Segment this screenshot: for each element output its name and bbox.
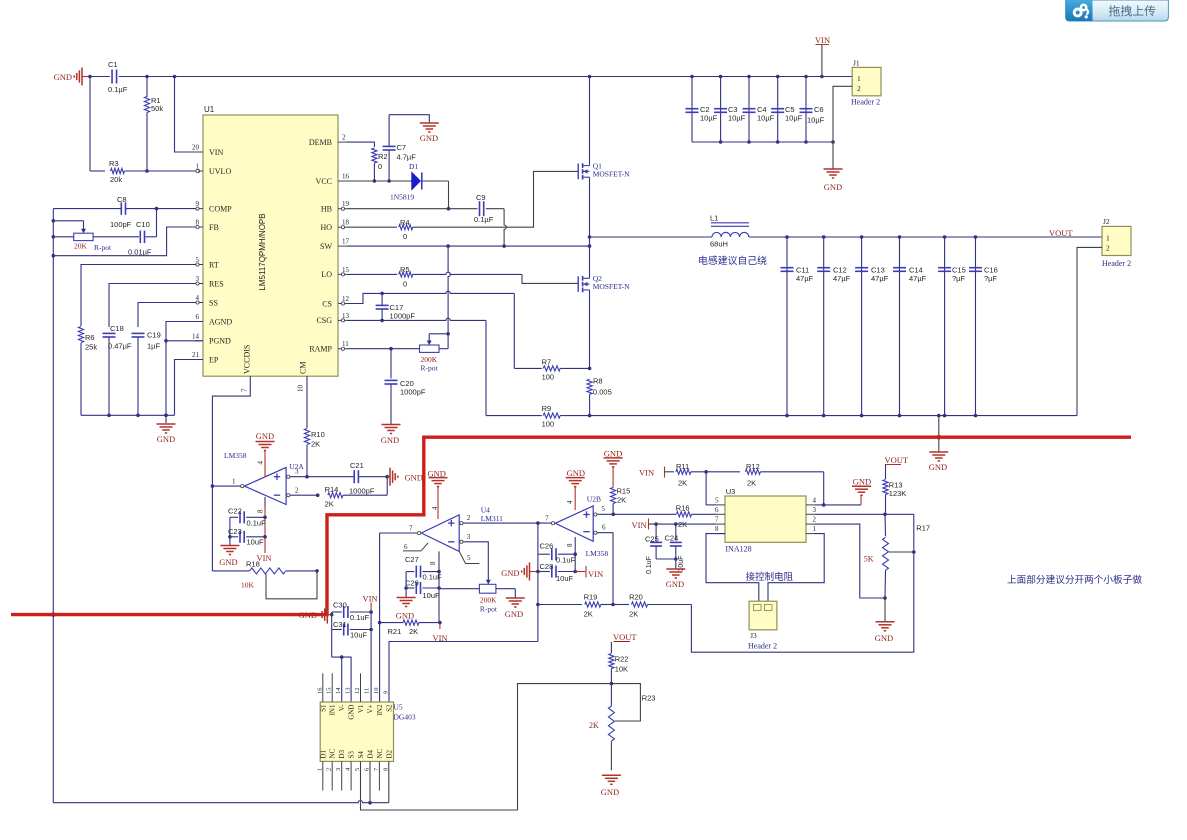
wire left rail to bottom bbox=[52, 615, 54, 803]
svg-text:SW: SW bbox=[320, 242, 332, 251]
svg-text:GND: GND bbox=[420, 133, 438, 143]
wire VIN to U5 V+ pin bbox=[370, 612, 372, 702]
svg-text:HB: HB bbox=[321, 205, 332, 214]
svg-text:R19: R19 bbox=[584, 593, 598, 602]
svg-text:VIN: VIN bbox=[639, 468, 654, 478]
wire V- and GND pins of U5 bbox=[332, 657, 351, 702]
U5 bottom pin stubs bbox=[322, 761, 324, 790]
capacitor C5 bbox=[777, 77, 779, 143]
svg-text:15: 15 bbox=[326, 688, 333, 695]
svg-text:CM: CM bbox=[299, 362, 308, 374]
svg-text:RT: RT bbox=[209, 260, 219, 269]
svg-text:123K: 123K bbox=[889, 489, 907, 498]
svg-text:L1: L1 bbox=[710, 214, 718, 223]
svg-text:R23: R23 bbox=[642, 694, 656, 703]
svg-text:J1: J1 bbox=[853, 59, 860, 68]
svg-text:0.1uF: 0.1uF bbox=[423, 573, 443, 582]
svg-text:0.1uF: 0.1uF bbox=[556, 556, 576, 565]
potentiometer 20K R-pot bbox=[53, 220, 83, 222]
svg-text:10uF: 10uF bbox=[423, 591, 441, 600]
svg-text:GND: GND bbox=[54, 72, 72, 82]
svg-text:10µF: 10µF bbox=[785, 114, 803, 123]
wire analog ground rail bbox=[81, 414, 175, 416]
svg-text:20: 20 bbox=[192, 144, 200, 152]
svg-text:R14: R14 bbox=[325, 485, 339, 494]
svg-text:LM5117QPMH/NOPB: LM5117QPMH/NOPB bbox=[258, 213, 267, 290]
wire RAMP bbox=[347, 348, 420, 350]
svg-text:Header 2: Header 2 bbox=[748, 642, 777, 651]
capacitor C3 bbox=[720, 77, 722, 143]
svg-text:10uF: 10uF bbox=[350, 631, 368, 640]
svg-text:GND: GND bbox=[348, 705, 356, 720]
svg-text:200K: 200K bbox=[480, 596, 497, 605]
resistor R4 bbox=[399, 225, 413, 230]
svg-text:VCC: VCC bbox=[316, 177, 332, 186]
svg-text:8: 8 bbox=[566, 543, 574, 547]
svg-text:2K: 2K bbox=[409, 627, 418, 636]
wire U2B pin5 R16 line to U3 pin6 bbox=[597, 513, 676, 515]
svg-text:VIN: VIN bbox=[815, 35, 830, 45]
svg-text:CS: CS bbox=[322, 299, 332, 308]
capacitor C28 bbox=[538, 571, 550, 573]
svg-text:3: 3 bbox=[295, 468, 299, 476]
svg-text:GND: GND bbox=[299, 610, 317, 620]
resistor R6 bbox=[78, 327, 83, 343]
svg-text:NC: NC bbox=[329, 748, 337, 758]
svg-text:0.1uF: 0.1uF bbox=[350, 613, 370, 622]
svg-text:R22: R22 bbox=[615, 655, 629, 664]
svg-text:8: 8 bbox=[715, 525, 719, 533]
svg-text:C26: C26 bbox=[540, 542, 554, 551]
capacitor C25 bbox=[655, 524, 657, 541]
wire HO bbox=[347, 226, 397, 228]
svg-text:0.47µF: 0.47µF bbox=[108, 342, 132, 351]
svg-text:0: 0 bbox=[378, 162, 382, 171]
svg-text:IN1: IN1 bbox=[329, 704, 337, 715]
wire C22 C23 left to GND bbox=[229, 517, 231, 545]
svg-text:HO: HO bbox=[320, 223, 332, 232]
ground GND below R23 bbox=[602, 774, 621, 776]
svg-text:21: 21 bbox=[192, 351, 200, 359]
wire VIN stub bbox=[821, 45, 823, 77]
svg-text:0.1µF: 0.1µF bbox=[108, 85, 128, 94]
wire left rail upper bbox=[52, 209, 54, 615]
svg-text:1: 1 bbox=[1106, 234, 1110, 243]
svg-text:1000pF: 1000pF bbox=[390, 312, 416, 321]
svg-text:R6: R6 bbox=[85, 333, 95, 342]
svg-text:C24: C24 bbox=[665, 534, 679, 543]
capacitor C1 bbox=[111, 70, 113, 84]
svg-text:6: 6 bbox=[196, 313, 200, 321]
svg-text:0.1uF: 0.1uF bbox=[646, 556, 653, 574]
wire rail to GND across red bus bbox=[938, 416, 940, 452]
svg-text:10µF: 10µF bbox=[757, 114, 775, 123]
wire VCC bbox=[347, 180, 412, 182]
svg-text:IN2: IN2 bbox=[376, 704, 384, 715]
svg-text:0: 0 bbox=[403, 280, 407, 289]
svg-text:GND: GND bbox=[405, 473, 423, 483]
svg-text:R7: R7 bbox=[542, 358, 552, 367]
svg-text:VOUT: VOUT bbox=[885, 455, 909, 465]
connector J3 Header 2 bbox=[749, 601, 777, 630]
svg-text:GND: GND bbox=[396, 611, 414, 621]
svg-text:V1: V1 bbox=[357, 704, 365, 713]
svg-text:GND: GND bbox=[601, 787, 619, 797]
svg-text:INA128: INA128 bbox=[725, 545, 751, 554]
svg-text:14: 14 bbox=[192, 332, 200, 340]
svg-text:SS: SS bbox=[209, 298, 218, 307]
svg-text:16: 16 bbox=[316, 687, 323, 694]
svg-text:1: 1 bbox=[813, 525, 817, 533]
wire R12 to U3 pin4 bbox=[823, 472, 825, 505]
resistor R16 bbox=[677, 512, 692, 517]
svg-text:R21: R21 bbox=[388, 627, 402, 636]
ground GND below left rail bbox=[157, 423, 176, 425]
U1 pin stubs bbox=[195, 151, 203, 153]
node VIN top rail bbox=[90, 76, 110, 78]
ground GND above D1 bbox=[420, 122, 439, 124]
wire input cap ground rail bbox=[692, 141, 833, 143]
capacitor C7 bbox=[383, 145, 396, 147]
wire CSG bbox=[347, 319, 382, 321]
svg-text:NC: NC bbox=[376, 748, 384, 758]
capacitor C6 bbox=[805, 77, 807, 143]
wire C25 C24 bottoms to GND bbox=[656, 558, 676, 560]
svg-text:AGND: AGND bbox=[209, 317, 232, 326]
wire AGND bbox=[166, 322, 203, 341]
svg-text:DEMB: DEMB bbox=[309, 138, 332, 147]
svg-text:电感建议自己绕: 电感建议自己绕 bbox=[698, 255, 768, 267]
wire U5 S4 to R22 node bbox=[361, 684, 612, 810]
svg-text:R18: R18 bbox=[246, 560, 260, 569]
wire R17 wiper bbox=[889, 551, 914, 553]
wire bottom rail to U5 bbox=[53, 801, 370, 803]
junction red dot GND drop bbox=[936, 435, 941, 440]
svg-text:2K: 2K bbox=[617, 496, 626, 505]
svg-text:S4: S4 bbox=[357, 751, 365, 759]
op-amp U2A LM358 bbox=[244, 467, 286, 504]
svg-text:5K: 5K bbox=[864, 555, 874, 564]
svg-text:J2: J2 bbox=[1103, 217, 1110, 226]
svg-text:3: 3 bbox=[335, 768, 342, 771]
svg-text:13: 13 bbox=[345, 688, 352, 695]
svg-text:10uF: 10uF bbox=[556, 574, 574, 583]
wire J1 gnd stem bbox=[832, 142, 834, 169]
svg-text:1: 1 bbox=[316, 768, 323, 771]
svg-text:FB: FB bbox=[209, 223, 219, 232]
svg-text:11: 11 bbox=[364, 688, 371, 694]
svg-text:2K: 2K bbox=[325, 500, 334, 509]
diode D1 1N5819 bbox=[412, 173, 421, 190]
svg-text:C22: C22 bbox=[228, 507, 242, 516]
svg-text:VIN: VIN bbox=[362, 594, 377, 604]
svg-text:9: 9 bbox=[382, 691, 389, 694]
svg-text:S3: S3 bbox=[348, 751, 356, 759]
ground GND to C30 C31 (red corner) bbox=[327, 614, 331, 616]
wire U4 pin8 down bbox=[438, 551, 440, 622]
svg-text:R4: R4 bbox=[400, 218, 410, 227]
svg-text:VOUT: VOUT bbox=[1049, 228, 1073, 238]
svg-text:4: 4 bbox=[566, 500, 574, 504]
svg-text:C21: C21 bbox=[350, 461, 364, 470]
potentiometer 200K R-pot RAMP bbox=[420, 345, 440, 352]
wire U2A pin8 to VIN bbox=[264, 497, 266, 507]
svg-text:5: 5 bbox=[715, 496, 719, 504]
svg-text:2: 2 bbox=[326, 768, 333, 771]
svg-text:R-pot: R-pot bbox=[94, 243, 112, 252]
wire U3 pin4 to GND bbox=[815, 504, 861, 506]
capacitor C20 bbox=[390, 349, 392, 379]
svg-text:R-pot: R-pot bbox=[421, 364, 439, 373]
svg-text:6: 6 bbox=[602, 524, 606, 532]
svg-text:2K: 2K bbox=[678, 479, 687, 488]
svg-text:4.7µF: 4.7µF bbox=[397, 153, 417, 162]
connector J2 Header 2 bbox=[1102, 226, 1131, 255]
svg-text:R11: R11 bbox=[676, 462, 689, 471]
svg-text:上面部分建议分开两个小板子做: 上面部分建议分开两个小板子做 bbox=[1007, 574, 1142, 586]
svg-text:R8: R8 bbox=[593, 377, 603, 386]
svg-text:20K: 20K bbox=[74, 242, 88, 251]
svg-text:EP: EP bbox=[209, 355, 219, 364]
wire U5 D4 stub bbox=[369, 761, 371, 802]
U5 top pin stubs bbox=[322, 673, 324, 702]
ground GND below C24 C25 bbox=[666, 568, 685, 570]
svg-text:D4: D4 bbox=[367, 749, 375, 758]
ground GND below output rail bbox=[929, 451, 948, 453]
svg-text:7: 7 bbox=[409, 525, 413, 533]
svg-text:U2B: U2B bbox=[587, 495, 601, 504]
svg-text:接控制电阻: 接控制电阻 bbox=[746, 571, 794, 583]
wire HB to SW bootstrap bbox=[486, 208, 504, 210]
svg-text:LM311: LM311 bbox=[481, 514, 503, 523]
svg-text:3: 3 bbox=[467, 533, 471, 541]
svg-text:7: 7 bbox=[715, 516, 719, 524]
svg-text:LM358: LM358 bbox=[586, 549, 609, 558]
svg-text:C9: C9 bbox=[476, 193, 486, 202]
svg-text:VCCDIS: VCCDIS bbox=[243, 345, 252, 374]
wire VIN pin drop bbox=[175, 77, 200, 153]
pin 5 stub U4 bbox=[459, 551, 479, 563]
wire C30 C31 left vertical bbox=[331, 612, 333, 657]
svg-text:MOSFET-N: MOSFET-N bbox=[593, 170, 630, 179]
svg-text:R-pot: R-pot bbox=[480, 605, 498, 614]
svg-text:10uF: 10uF bbox=[247, 538, 265, 547]
svg-text:Header 2: Header 2 bbox=[851, 98, 880, 107]
svg-text:C19: C19 bbox=[147, 331, 161, 340]
capacitor C2 bbox=[691, 77, 693, 143]
svg-text:4: 4 bbox=[813, 496, 817, 504]
svg-text:C29: C29 bbox=[405, 579, 419, 588]
capacitor C19 bbox=[132, 332, 145, 334]
svg-text:0.1uF: 0.1uF bbox=[247, 519, 267, 528]
svg-text:GND: GND bbox=[604, 449, 622, 459]
svg-text:DG403: DG403 bbox=[394, 713, 416, 722]
capacitor C4 bbox=[748, 77, 750, 143]
svg-text:2K: 2K bbox=[747, 479, 756, 488]
svg-text:R17: R17 bbox=[916, 524, 930, 533]
svg-text:U3: U3 bbox=[726, 487, 736, 496]
svg-text:3: 3 bbox=[813, 506, 817, 514]
op-amp U2B LM358 bbox=[555, 506, 593, 541]
svg-text:C31: C31 bbox=[333, 620, 347, 629]
resistor R10 bbox=[304, 429, 309, 445]
svg-text:47µF: 47µF bbox=[833, 274, 851, 283]
wire U4 pin2 plus input bbox=[463, 522, 554, 524]
svg-text:PGND: PGND bbox=[209, 337, 231, 346]
svg-text:C25: C25 bbox=[645, 535, 659, 544]
svg-text:C8: C8 bbox=[117, 195, 127, 204]
svg-text:S2: S2 bbox=[385, 704, 393, 712]
wire U3 pin2 to 5K bottom bbox=[815, 524, 885, 598]
svg-text:0.005: 0.005 bbox=[593, 388, 612, 397]
capacitor C13 bbox=[861, 237, 863, 416]
svg-text:C27: C27 bbox=[405, 555, 419, 564]
wire R14 up to C21 bbox=[386, 477, 388, 496]
svg-text:MOSFET-N: MOSFET-N bbox=[593, 282, 630, 291]
svg-text:VIN: VIN bbox=[209, 148, 223, 157]
svg-text:R12: R12 bbox=[746, 462, 760, 471]
potentiometer R18 10K bbox=[211, 486, 213, 571]
svg-text:10K: 10K bbox=[615, 665, 628, 674]
svg-text:1000pF: 1000pF bbox=[400, 388, 426, 397]
resistor R19 bbox=[538, 604, 582, 606]
svg-text:R10: R10 bbox=[311, 430, 325, 439]
op-amp U5 DG403 box bbox=[320, 702, 393, 761]
svg-text:C6: C6 bbox=[814, 105, 824, 114]
svg-text:1: 1 bbox=[232, 478, 236, 486]
svg-text:C28: C28 bbox=[540, 562, 554, 571]
svg-text:7: 7 bbox=[241, 388, 249, 392]
svg-text:7: 7 bbox=[545, 515, 549, 523]
ground GND below C27 C29 bbox=[397, 597, 416, 599]
svg-text:R9: R9 bbox=[542, 404, 552, 413]
wire U3 pin3 long bbox=[815, 513, 914, 515]
svg-text:COMP: COMP bbox=[209, 204, 232, 213]
svg-text:GND: GND bbox=[567, 468, 585, 478]
capacitor C10 bbox=[139, 231, 141, 244]
svg-text:R2: R2 bbox=[378, 152, 388, 161]
capacitor C12 bbox=[823, 237, 825, 416]
resistor R13 bbox=[885, 465, 887, 479]
resistor R7 bbox=[514, 367, 542, 369]
svg-text:?µF: ?µF bbox=[952, 274, 965, 283]
svg-text:14: 14 bbox=[335, 687, 342, 694]
capacitor C29 bbox=[406, 587, 414, 589]
svg-text:6: 6 bbox=[404, 543, 408, 551]
svg-text:C7: C7 bbox=[397, 143, 407, 152]
wire CS bbox=[347, 293, 382, 303]
svg-text:17: 17 bbox=[342, 238, 350, 246]
svg-text:VIN: VIN bbox=[588, 569, 603, 579]
svg-text:GND: GND bbox=[505, 609, 523, 619]
capacitor C21 bbox=[307, 476, 354, 478]
svg-text:U5: U5 bbox=[394, 703, 403, 712]
pin 6 stub U4 bbox=[403, 543, 428, 551]
svg-text:拖拽上传: 拖拽上传 bbox=[1109, 4, 1157, 18]
wire U3 pin1 to J3 pin2 bbox=[768, 534, 824, 602]
svg-text:100: 100 bbox=[542, 373, 555, 382]
potentiometer 200K R-pot at U4 bbox=[479, 584, 496, 593]
svg-text:GND: GND bbox=[875, 633, 893, 643]
wire Q1 source to SW bbox=[589, 177, 591, 246]
resistor R1 bbox=[146, 77, 148, 98]
svg-text:1µF: 1µF bbox=[147, 342, 160, 351]
wire DEMB bbox=[347, 142, 374, 147]
svg-text:6: 6 bbox=[715, 506, 719, 514]
svg-text:LO: LO bbox=[321, 270, 332, 279]
text net label VIN right of C28 bbox=[575, 571, 585, 573]
wire U2A pin1 bbox=[212, 485, 240, 487]
wire U3 pin8 to J3 pin1 bbox=[706, 534, 759, 602]
resistor R20 bbox=[613, 604, 629, 606]
wire J1 pin2 bbox=[833, 86, 852, 142]
svg-text:8: 8 bbox=[429, 561, 437, 565]
resistor R14 bbox=[328, 493, 343, 498]
capacitor C17 bbox=[376, 304, 389, 306]
wire R17 vertical bbox=[913, 514, 915, 652]
capacitor C24 bbox=[675, 524, 677, 541]
svg-text:4: 4 bbox=[257, 461, 265, 465]
svg-text:R16: R16 bbox=[676, 504, 690, 513]
svg-text:2: 2 bbox=[1106, 244, 1110, 253]
resistor R5 bbox=[399, 272, 413, 277]
wire S2 net to U5 pin9 bbox=[389, 642, 538, 703]
resistor R22 bbox=[610, 642, 612, 653]
capacitor C15 bbox=[944, 237, 946, 416]
capacitor C26 bbox=[538, 553, 550, 555]
wire SW to RAMP pot bbox=[448, 246, 450, 334]
svg-text:2K: 2K bbox=[584, 610, 593, 619]
wire EP bbox=[175, 360, 204, 416]
wire RES bbox=[109, 284, 196, 328]
svg-text:?µF: ?µF bbox=[984, 274, 997, 283]
svg-text:Header 2: Header 2 bbox=[1102, 259, 1131, 268]
svg-text:D1: D1 bbox=[319, 749, 327, 758]
wire R20 to R17 net bbox=[691, 605, 913, 653]
svg-text:RES: RES bbox=[209, 279, 224, 288]
ground GND below C20 bbox=[382, 424, 401, 426]
svg-text:LM358: LM358 bbox=[224, 451, 247, 460]
svg-text:25k: 25k bbox=[85, 343, 97, 352]
resistor R3 bbox=[89, 77, 91, 172]
resistor R9 bbox=[486, 415, 542, 417]
svg-text:J3: J3 bbox=[750, 631, 757, 640]
svg-text:2K: 2K bbox=[629, 610, 638, 619]
wire U3 pin7 bbox=[649, 523, 717, 525]
capacitor C22 bbox=[230, 516, 238, 518]
resistor R21 bbox=[403, 620, 419, 625]
wire U2A pin2 bbox=[290, 494, 318, 496]
svg-text:10µF: 10µF bbox=[807, 116, 825, 125]
svg-text:1N5819: 1N5819 bbox=[390, 193, 414, 202]
capacitor C9 bbox=[479, 201, 481, 216]
resistor R2 bbox=[372, 148, 377, 163]
svg-text:C1: C1 bbox=[108, 60, 118, 69]
svg-text:R15: R15 bbox=[617, 487, 631, 496]
svg-text:2K: 2K bbox=[311, 440, 320, 449]
capacitor C30 bbox=[332, 611, 342, 613]
wire U3 pin5 bbox=[706, 504, 716, 506]
text net label VIN below R21 bbox=[439, 623, 441, 629]
svg-text:RAMP: RAMP bbox=[309, 345, 332, 354]
svg-text:C10: C10 bbox=[136, 220, 150, 229]
svg-text:50k: 50k bbox=[151, 104, 163, 113]
svg-text:CSG: CSG bbox=[316, 316, 332, 325]
resistor R8 bbox=[587, 379, 592, 394]
svg-text:2K: 2K bbox=[589, 721, 599, 730]
svg-text:2: 2 bbox=[857, 84, 861, 93]
svg-text:100: 100 bbox=[542, 420, 555, 429]
